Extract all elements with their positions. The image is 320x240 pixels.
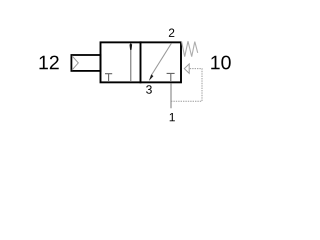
right square blocked port T (1)	[167, 73, 175, 82]
port 1 label	[170, 113, 175, 121]
left square flow arrowhead	[130, 43, 133, 50]
position divider	[140, 41, 142, 83]
valve body outline	[101, 42, 182, 82]
pilot line dashed from port 1	[171, 69, 202, 102]
left square flow arrow stem	[130, 49, 132, 82]
return spring	[182, 41, 198, 56]
left square blocked port T (3)	[105, 74, 112, 82]
label 10	[211, 56, 230, 70]
port 1 connection line	[170, 83, 172, 108]
label 12	[39, 56, 58, 70]
port 2 label	[169, 29, 174, 37]
pilot chevron	[72, 56, 78, 70]
pilot actuator box (12)	[71, 55, 100, 71]
right square diagonal line 2->3	[151, 43, 171, 75]
right square diagonal arrowhead	[149, 74, 154, 81]
pilot return triangle (10)	[184, 64, 189, 73]
port 3 label	[146, 85, 152, 94]
